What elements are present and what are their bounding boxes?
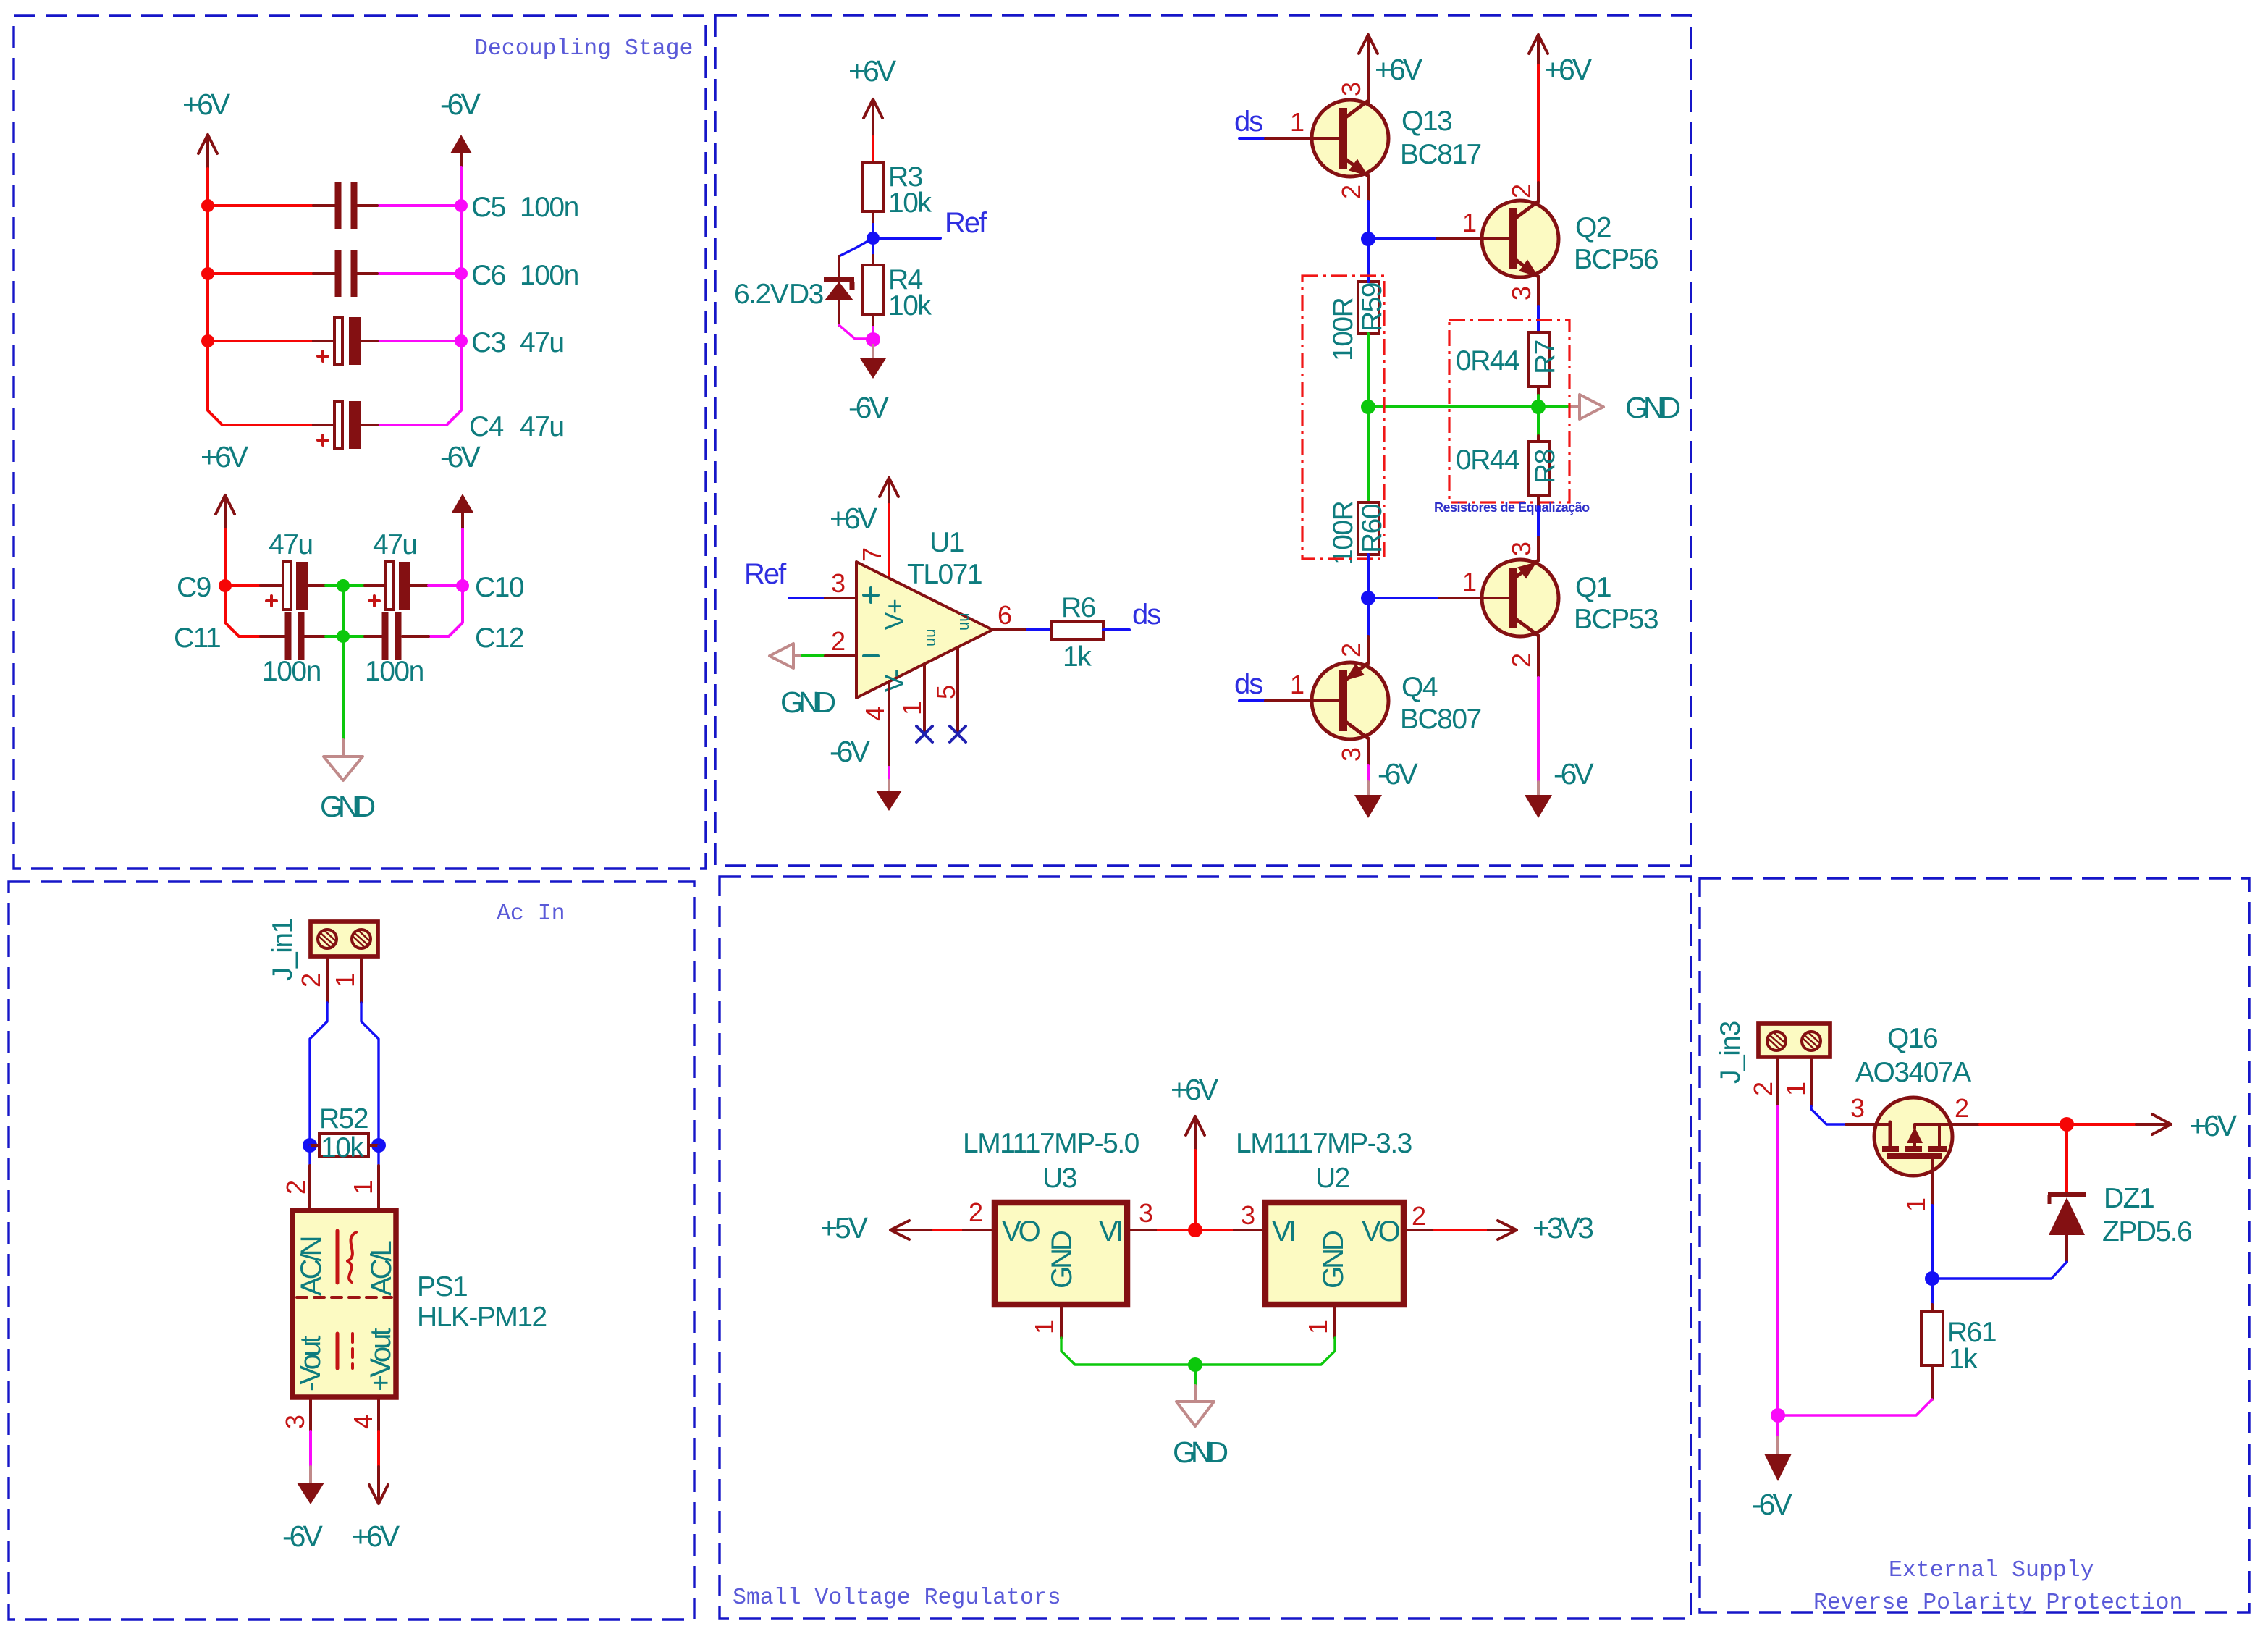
- svg-text:1: 1: [330, 974, 360, 987]
- svg-text:10k: 10k: [321, 1132, 364, 1163]
- power -6V lower: [440, 440, 481, 529]
- wire Ref to pin3: [789, 597, 825, 599]
- power -6V below Q4: [1354, 757, 1418, 818]
- power +6V top: [182, 88, 231, 169]
- svg-text:2: 2: [1336, 185, 1366, 199]
- wire U3 VI to junction: [1158, 1229, 1195, 1231]
- junction Q1-Q4 base node: [1361, 591, 1375, 605]
- svg-text:4: 4: [860, 707, 890, 721]
- wire +6V to R3: [872, 137, 874, 162]
- svg-text:+Vout: +Vout: [365, 1328, 397, 1391]
- svg-text:100R: 100R: [1328, 501, 1359, 565]
- svg-text:AC/L: AC/L: [366, 1241, 397, 1296]
- junction C9 node: [219, 579, 232, 592]
- wire Q16 pin1 down: [1931, 1205, 1934, 1279]
- wire R4 bottom lead: [872, 314, 874, 327]
- svg-text:VI: VI: [1099, 1216, 1121, 1247]
- power +6V above Q2: [1529, 35, 1593, 86]
- ground GND flag at pin2: [770, 644, 835, 719]
- power -6V external: [1752, 1437, 1792, 1521]
- svg-text:R7: R7: [1530, 340, 1561, 374]
- wire R3 to Ref node: [872, 211, 874, 224]
- svg-text:-Vout: -Vout: [295, 1336, 326, 1391]
- svg-text:VI: VI: [1272, 1216, 1294, 1247]
- resistor R6 1k: [1051, 592, 1103, 673]
- wire J_in3 pin2 magenta rail: [1776, 1106, 1779, 1415]
- power -6V PS1: [282, 1467, 324, 1553]
- resistor R52 10k: [310, 1103, 379, 1163]
- capacitor C11: [174, 612, 326, 687]
- svg-text:2: 2: [969, 1197, 982, 1227]
- svg-text:100n: 100n: [520, 192, 578, 223]
- svg-text:3: 3: [1241, 1200, 1255, 1230]
- svg-text:R8: R8: [1530, 450, 1561, 484]
- pin 2 lead U2: [1404, 1229, 1435, 1231]
- svg-text:47u: 47u: [269, 529, 313, 560]
- svg-text:3: 3: [1336, 83, 1366, 96]
- svg-text:External Supply: External Supply: [1889, 1558, 2094, 1583]
- wire R6 to ds: [1103, 628, 1129, 631]
- wire R61 top lead: [1931, 1305, 1934, 1312]
- pin 2 lead J_in1: [326, 956, 329, 1003]
- svg-text:+6V: +6V: [1375, 53, 1423, 86]
- svg-text:Q16: Q16: [1887, 1023, 1937, 1054]
- svg-text:Q1: Q1: [1575, 572, 1611, 603]
- resistor R4 10k: [863, 264, 932, 321]
- pin 1 stub: [923, 664, 926, 734]
- svg-text:+3V3: +3V3: [1533, 1211, 1593, 1244]
- junction R52 left: [303, 1138, 317, 1153]
- junction gate divider node: [1925, 1271, 1939, 1286]
- wire R8 bottom lead: [1537, 496, 1540, 507]
- svg-text:+6V: +6V: [1171, 1073, 1219, 1106]
- capacitor C10 polarized: [365, 529, 524, 610]
- junction GND regulators: [1188, 1357, 1202, 1372]
- transistor Q4 BC807: [1312, 662, 1481, 766]
- svg-text:3: 3: [1850, 1093, 1864, 1123]
- svg-text:BCP56: BCP56: [1574, 244, 1658, 275]
- junction GND node left: [1361, 400, 1375, 414]
- pin 1 lead Q4: [1265, 699, 1341, 702]
- junction GND mid upper: [337, 579, 350, 592]
- svg-text:BC817: BC817: [1400, 139, 1481, 170]
- wire R61 bottom lead: [1931, 1365, 1934, 1399]
- wire +6V to Q2 collector: [1537, 65, 1540, 182]
- resistor R7 0R44: [1456, 332, 1561, 387]
- svg-text:HLK-PM12: HLK-PM12: [417, 1302, 547, 1333]
- svg-text:-6V: -6V: [440, 440, 481, 473]
- pin 1 lead U2: [1333, 1305, 1336, 1338]
- svg-text:D3: D3: [789, 279, 823, 310]
- resistor R3 10k: [863, 161, 932, 219]
- svg-text:1: 1: [1781, 1082, 1810, 1096]
- wire +6V feeds C5 C6 C3: [208, 206, 313, 341]
- svg-text:47u: 47u: [520, 411, 564, 442]
- connector J_in3: [1715, 1021, 1830, 1084]
- wire C10 to -6V: [429, 529, 463, 586]
- svg-text:C4: C4: [469, 411, 504, 442]
- junction GND node right: [1531, 400, 1546, 414]
- wire junction to Q1 base: [1368, 597, 1437, 599]
- junction +6V C3: [201, 334, 214, 347]
- svg-text:Q13: Q13: [1401, 106, 1451, 137]
- svg-text:2: 2: [281, 1181, 311, 1195]
- diode D3 zener 6.2V: [734, 279, 854, 325]
- wire C11 to GND junction: [326, 635, 365, 638]
- svg-text:TL071: TL071: [907, 559, 982, 590]
- wire J_in1 pin2 to R52: [310, 1003, 327, 1145]
- svg-text:C11: C11: [174, 623, 220, 654]
- svg-text:ZPD5.6: ZPD5.6: [2102, 1216, 2191, 1247]
- frame equalization resistors right: [1449, 320, 1569, 502]
- pin 5 stub: [956, 647, 959, 734]
- svg-text:1: 1: [1029, 1320, 1059, 1334]
- capacitor C12: [365, 612, 523, 687]
- svg-text:2: 2: [1412, 1201, 1425, 1231]
- wire Q2 emitter to R7: [1537, 306, 1540, 332]
- svg-text:6: 6: [998, 600, 1011, 630]
- pin 1 lead U3: [1060, 1305, 1063, 1338]
- svg-text:U2: U2: [1315, 1163, 1349, 1194]
- ground GND flag: [320, 740, 375, 823]
- wire Q1 emitter to -6V: [1537, 678, 1540, 782]
- pin 2 lead U3: [964, 1229, 995, 1231]
- svg-text:VO: VO: [1362, 1216, 1400, 1247]
- pin 3 lead Q16: [1846, 1123, 1874, 1126]
- transistor Q2 BCP56: [1482, 182, 1658, 306]
- svg-text:2: 2: [1506, 185, 1536, 198]
- power +6V lower: [201, 440, 249, 529]
- svg-text:0R44: 0R44: [1456, 445, 1519, 476]
- svg-text:GND: GND: [1318, 1231, 1349, 1289]
- capacitor C4 polarized: [313, 401, 564, 449]
- svg-text:ds: ds: [1132, 599, 1160, 631]
- resistor R8 0R44: [1456, 442, 1561, 496]
- svg-text:6.2V: 6.2V: [734, 279, 789, 310]
- frame equalization resistors left: [1302, 276, 1384, 559]
- svg-text:C10: C10: [475, 572, 524, 603]
- junction -6V C5: [455, 199, 468, 212]
- svg-text:+6V: +6V: [830, 502, 878, 535]
- svg-text:V+: V+: [880, 599, 909, 630]
- svg-text:1: 1: [1290, 670, 1304, 699]
- svg-text:3: 3: [831, 568, 845, 598]
- section frame amplifier bias: [715, 15, 1691, 866]
- wire C9 to GND junction: [326, 584, 365, 587]
- wire -6V from C5 C6 C3: [377, 206, 461, 341]
- svg-text:2: 2: [296, 974, 326, 987]
- ground GND flag regulators: [1173, 1386, 1228, 1469]
- junction -6V below R4: [866, 332, 880, 347]
- junction R52 right: [371, 1138, 386, 1153]
- pin 2 lead J_in3: [1776, 1058, 1779, 1106]
- wire junction to Q2 base: [1368, 237, 1437, 240]
- op-amp minus input symbol: [864, 654, 878, 657]
- power -6V top: [440, 88, 481, 167]
- pin 4 lead PS1: [377, 1399, 380, 1431]
- wire GND cross: [1368, 405, 1571, 408]
- svg-text:PS1: PS1: [417, 1271, 467, 1302]
- wire ds to Q13 base: [1239, 137, 1265, 140]
- pin 3 lead U3: [1127, 1229, 1158, 1231]
- junction -6V C6: [455, 267, 468, 280]
- no-connect X pin5: [950, 726, 966, 742]
- wire +6V to U1 pin7: [888, 505, 890, 578]
- svg-text:AO3407A: AO3407A: [1855, 1057, 1971, 1088]
- wire R7 green to junction: [1537, 395, 1540, 407]
- svg-text:ds: ds: [1234, 668, 1262, 700]
- svg-text:47u: 47u: [373, 529, 417, 560]
- wire D3 anode to -6V node: [839, 325, 874, 339]
- pin 1 lead PS1: [377, 1166, 380, 1209]
- svg-text:C5: C5: [471, 192, 506, 223]
- power +3V3 output arrow: [1488, 1211, 1593, 1244]
- svg-text:1: 1: [1462, 208, 1476, 237]
- power -6V below R4: [848, 345, 889, 424]
- svg-text:2: 2: [1506, 654, 1536, 667]
- transistor Q16 AO3407A mosfet: [1855, 1023, 1971, 1205]
- svg-text:5: 5: [931, 686, 961, 699]
- svg-text:-6V: -6V: [440, 88, 481, 121]
- capacitor C3 polarized: [313, 317, 564, 365]
- wire R4 top lead: [872, 238, 874, 256]
- svg-text:+6V: +6V: [201, 440, 249, 473]
- svg-text:Small Voltage Regulators: Small Voltage Regulators: [733, 1585, 1061, 1611]
- wire DZ1 anode to gate node: [1932, 1262, 2067, 1279]
- svg-text:1: 1: [1462, 567, 1476, 597]
- wire +5V to U3: [934, 1229, 964, 1231]
- power +6V above Q13: [1359, 35, 1423, 104]
- power +6V above U1: [830, 478, 898, 535]
- no-connect X pin1: [916, 726, 932, 742]
- svg-text:-6V: -6V: [1554, 757, 1594, 791]
- svg-text:+6V: +6V: [352, 1520, 400, 1553]
- svg-text:Resistores de Equalização: Resistores de Equalização: [1434, 500, 1590, 515]
- junction +6V DZ1: [2060, 1117, 2074, 1132]
- wire D3 top lead: [838, 256, 840, 279]
- svg-text:10k: 10k: [888, 290, 932, 321]
- svg-text:1: 1: [897, 702, 927, 715]
- svg-text:Decoupling Stage: Decoupling Stage: [474, 36, 693, 62]
- wire J_in1 pin1 to R52: [361, 1003, 379, 1145]
- wire R8 top lead: [1537, 436, 1540, 442]
- svg-text:1: 1: [1901, 1198, 1931, 1212]
- wire PS1 pin4 +6V: [377, 1431, 380, 1467]
- svg-text:GND: GND: [1173, 1436, 1228, 1469]
- power supply PS1 HLK-PM12: [292, 1210, 547, 1397]
- resistor R61 1k: [1921, 1312, 1996, 1375]
- section frame Small Voltage Regulators: [720, 877, 1691, 1619]
- pin 3 lead Q1: [1537, 537, 1540, 560]
- wire Q4 collector to -6V: [1367, 766, 1370, 782]
- svg-text:R52: R52: [319, 1103, 368, 1134]
- pin 1 lead Q2: [1437, 237, 1511, 240]
- wire R61 to -6V rail: [1778, 1399, 1932, 1415]
- wire +6V to C9: [225, 529, 261, 586]
- wire R8 to Q1: [1537, 507, 1540, 537]
- svg-text:-6V: -6V: [830, 735, 870, 768]
- svg-text:C3: C3: [471, 327, 505, 358]
- wire Q13 emitter to junction: [1367, 201, 1370, 239]
- wire U2 GND to junction: [1195, 1338, 1335, 1365]
- pin 3 lead U2: [1234, 1229, 1265, 1231]
- wire ds to Q4 base: [1239, 699, 1265, 702]
- pin 1 lead J_in3: [1810, 1058, 1813, 1106]
- pin 3 lead PS1: [309, 1399, 312, 1431]
- svg-text:J_in1: J_in1: [267, 919, 298, 981]
- svg-text:V-: V-: [880, 670, 909, 692]
- resistor R59 100R: [1328, 282, 1388, 361]
- svg-text:1k: 1k: [1949, 1344, 1978, 1375]
- svg-text:Reverse Polarity Protection: Reverse Polarity Protection: [1813, 1591, 2183, 1616]
- capacitor C6: [313, 250, 578, 297]
- svg-text:+6V: +6V: [1544, 53, 1593, 86]
- svg-text:3: 3: [1336, 748, 1366, 762]
- svg-text:+6V: +6V: [848, 54, 897, 88]
- svg-text:GND: GND: [780, 686, 835, 719]
- svg-text:BC807: BC807: [1400, 704, 1481, 735]
- svg-text:+5V: +5V: [820, 1211, 869, 1244]
- svg-text:1k: 1k: [1063, 641, 1092, 673]
- pin 2 lead Q16: [1952, 1123, 1980, 1126]
- connector J_in1: [267, 919, 378, 981]
- junction Q13-Q2 base node: [1361, 232, 1375, 246]
- svg-text:100n: 100n: [520, 260, 578, 291]
- pin 3 lead: [825, 597, 856, 599]
- section frame External Supply: [1700, 878, 2249, 1612]
- svg-text:Ref: Ref: [945, 207, 987, 239]
- svg-text:BCP53: BCP53: [1574, 604, 1658, 635]
- svg-text:2: 2: [1955, 1093, 1968, 1123]
- svg-text:100n: 100n: [262, 656, 321, 687]
- wire -6V stub: [1776, 1415, 1779, 1437]
- pin 1 lead Q1: [1437, 597, 1511, 599]
- svg-text:10k: 10k: [888, 188, 932, 219]
- regulator U3 LM1117MP-5.0: [963, 1128, 1139, 1305]
- junction VI node: [1188, 1223, 1202, 1237]
- pin 1 lead Q13: [1265, 137, 1341, 140]
- power +6V output arrow: [2136, 1109, 2238, 1142]
- svg-text:100R: 100R: [1328, 298, 1359, 361]
- wire R52 junctions to PS1: [310, 1145, 379, 1166]
- power +5V output arrow: [820, 1211, 934, 1244]
- pin 4 lead: [888, 681, 890, 767]
- power -6V below Q1: [1525, 757, 1594, 818]
- wire C9 down to C11: [225, 586, 261, 636]
- wire junction to R61: [1931, 1279, 1934, 1305]
- svg-text:U1: U1: [929, 527, 964, 558]
- wire R59 to GND junction: [1367, 334, 1370, 407]
- wire Ref to D3: [839, 238, 873, 256]
- transistor Q1 BCP53: [1482, 556, 1658, 678]
- svg-text:DZ1: DZ1: [2104, 1183, 2154, 1214]
- svg-text:1: 1: [348, 1181, 378, 1195]
- wire junction to DZ1: [2065, 1124, 2068, 1193]
- wire R60 to Q4 junction: [1367, 555, 1370, 598]
- svg-text:-6V: -6V: [1752, 1488, 1792, 1521]
- wire R7 to GND junction: [1537, 387, 1540, 395]
- junction C10 node: [456, 579, 469, 592]
- svg-text:ds: ds: [1234, 106, 1262, 138]
- svg-text:-6V: -6V: [848, 391, 889, 424]
- power +6V above R3: [848, 54, 897, 137]
- svg-text:2: 2: [831, 626, 845, 656]
- wire pin6 to R6: [1027, 628, 1051, 631]
- regulator U2 LM1117MP-3.3: [1236, 1128, 1412, 1305]
- transistor Q13 BC817: [1312, 100, 1481, 201]
- svg-text:uu: uu: [954, 613, 972, 631]
- capacitor C5: [313, 182, 578, 229]
- wire Q16 drain to +6V: [1980, 1123, 2136, 1126]
- wire junction to U2 VI: [1195, 1229, 1234, 1231]
- svg-text:Ref: Ref: [744, 558, 787, 590]
- svg-text:GND: GND: [1046, 1231, 1078, 1289]
- svg-text:3: 3: [1506, 542, 1536, 556]
- wire GND to pin2: [802, 654, 825, 657]
- svg-text:C12: C12: [475, 623, 523, 654]
- section frame Decoupling Stage: [14, 16, 706, 869]
- svg-text:4: 4: [348, 1415, 378, 1429]
- power +6V regulators: [1171, 1073, 1219, 1150]
- svg-text:3: 3: [1506, 287, 1536, 300]
- op-amp U1 TL071: [856, 527, 992, 698]
- wire -6V right rail: [377, 167, 461, 425]
- svg-text:3: 3: [1139, 1198, 1152, 1228]
- svg-text:GND: GND: [1625, 391, 1680, 424]
- wire J_in3 pin1 to Q16 gate: [1811, 1106, 1846, 1124]
- svg-text:R6: R6: [1061, 592, 1095, 623]
- svg-text:+6V: +6V: [2189, 1109, 2238, 1142]
- svg-text:VO: VO: [1002, 1216, 1040, 1247]
- svg-text:GND: GND: [320, 790, 375, 823]
- wire junction to R8: [1537, 407, 1540, 436]
- op-amp plus input symbol: [864, 588, 878, 602]
- svg-text:0R44: 0R44: [1456, 345, 1519, 376]
- wire junction to R60: [1367, 407, 1370, 502]
- wire U2 VO to +3V3: [1435, 1229, 1488, 1231]
- wire +6V to VI node: [1194, 1150, 1197, 1230]
- pin 2 lead PS1: [308, 1166, 311, 1209]
- svg-text:+6V: +6V: [182, 88, 231, 121]
- svg-text:3: 3: [280, 1415, 310, 1429]
- wire R4 to -6V: [872, 327, 874, 340]
- section frame Ac In: [9, 882, 694, 1619]
- svg-text:C9: C9: [177, 572, 211, 603]
- junction -6V node: [1771, 1408, 1785, 1423]
- resistor R60 100R: [1328, 501, 1388, 565]
- svg-text:LM1117MP-3.3: LM1117MP-3.3: [1236, 1128, 1412, 1159]
- junction +6V C6: [201, 267, 214, 280]
- svg-text:J_in3: J_in3: [1715, 1021, 1746, 1084]
- svg-text:7: 7: [857, 548, 887, 562]
- wire Ref node: [873, 224, 940, 238]
- junction +6V C5: [201, 199, 214, 212]
- svg-text:47u: 47u: [520, 327, 564, 358]
- svg-text:uu: uu: [921, 629, 939, 646]
- svg-text:Ac In: Ac In: [497, 901, 565, 927]
- power -6V below U1: [830, 735, 902, 811]
- wire Q13 junction to R59: [1367, 239, 1370, 282]
- wire junction to Q4: [1367, 598, 1370, 636]
- wire GND stem regulators: [1194, 1365, 1197, 1386]
- svg-text:LM1117MP-5.0: LM1117MP-5.0: [963, 1128, 1139, 1159]
- pin 1 lead J_in1: [360, 956, 363, 1003]
- wire +6V left rail: [208, 169, 313, 425]
- svg-text:AC/N: AC/N: [295, 1237, 327, 1296]
- wire pin4 to -6V: [888, 767, 890, 780]
- ground GND flag right: [1571, 391, 1680, 424]
- capacitor C9 polarized: [177, 529, 326, 610]
